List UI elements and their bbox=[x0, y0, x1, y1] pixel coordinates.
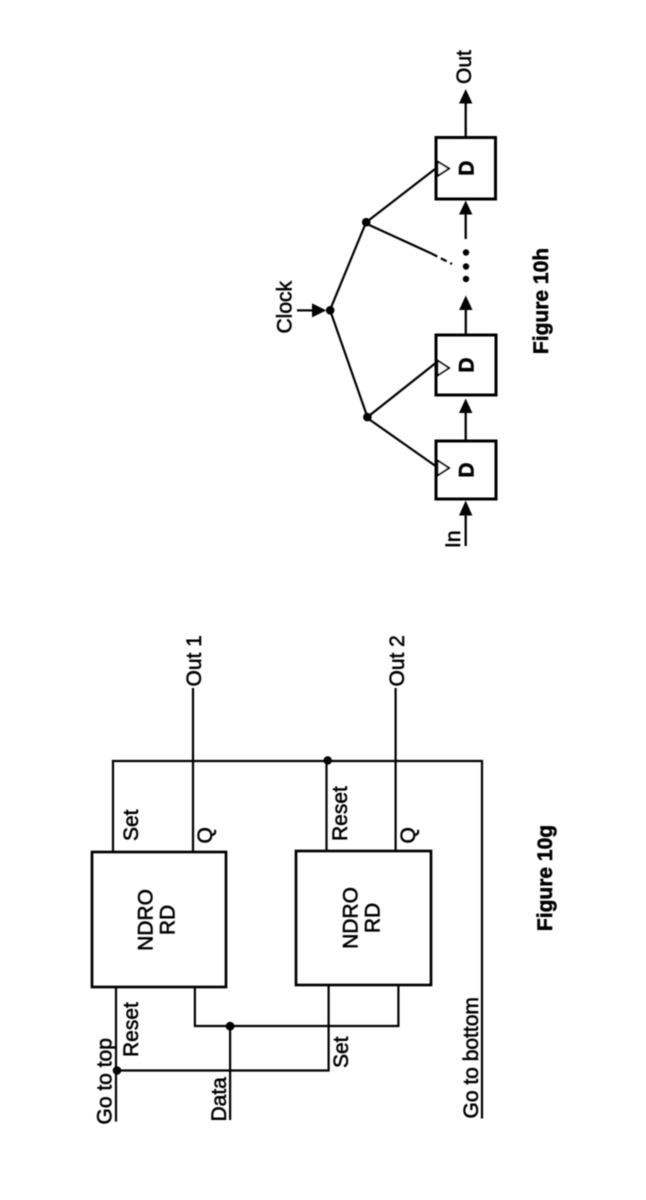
svg-text:NDRORD: NDRORD bbox=[340, 887, 385, 949]
svg-text:Q: Q bbox=[397, 827, 420, 843]
svg-text:D: D bbox=[455, 161, 478, 176]
svg-text:Q: Q bbox=[194, 827, 217, 843]
svg-text:D: D bbox=[455, 462, 478, 477]
svg-text:Out 1: Out 1 bbox=[183, 635, 206, 686]
svg-text:Reset: Reset bbox=[329, 786, 352, 841]
svg-text:Out: Out bbox=[453, 50, 476, 84]
svg-text:Clock: Clock bbox=[274, 280, 297, 333]
svg-text:NDRORD: NDRORD bbox=[135, 889, 180, 951]
svg-text:Figure 10g: Figure 10g bbox=[534, 825, 557, 931]
svg-text:Set: Set bbox=[120, 809, 143, 841]
svg-text:In: In bbox=[442, 530, 465, 548]
svg-text:D: D bbox=[455, 357, 478, 372]
svg-text:Reset: Reset bbox=[120, 1002, 143, 1057]
svg-text:Data: Data bbox=[208, 1077, 231, 1122]
svg-text:Figure 10h: Figure 10h bbox=[530, 248, 553, 354]
svg-text:Set: Set bbox=[330, 1036, 353, 1068]
svg-text:Go to bottom: Go to bottom bbox=[460, 997, 483, 1118]
svg-text:Out 2: Out 2 bbox=[386, 635, 409, 686]
svg-text:Go to top: Go to top bbox=[94, 1038, 117, 1124]
